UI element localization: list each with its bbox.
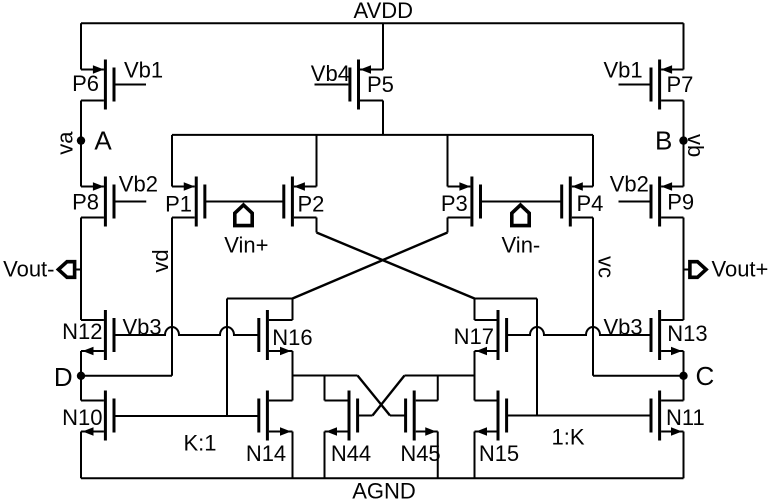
wire N17 drain up xyxy=(474,299,476,321)
wire junction to N44 drain horizontal xyxy=(293,375,358,377)
wire AVDD to P7 source xyxy=(683,23,685,69)
transistor N16 xyxy=(266,310,269,360)
wire P2 drain down xyxy=(316,218,318,233)
svg-text:vc: vc xyxy=(594,256,619,278)
wire P3 drain down xyxy=(447,218,449,233)
wire N17 loop down to 1:K gate line xyxy=(536,299,538,417)
wire N17 source down to N15 drain xyxy=(474,351,476,401)
svg-text:P4: P4 xyxy=(577,191,604,216)
tail rail (sources of P1-P4) xyxy=(172,134,593,136)
wire N44 drain up xyxy=(324,376,326,401)
transistor P3 xyxy=(470,177,473,227)
wire P3 drain cross to N16 drain xyxy=(293,233,448,299)
svg-text:N44: N44 xyxy=(331,441,371,466)
transistor N11 xyxy=(658,391,661,441)
wire AVDD to P5 source xyxy=(382,23,384,69)
gate wire P1-P2 (Vin+) xyxy=(204,201,284,203)
svg-text:AGND: AGND xyxy=(352,479,416,500)
svg-text:P5: P5 xyxy=(367,72,394,97)
gate wire N10-N14 (K:1 mirror) xyxy=(114,415,258,417)
wire N16 loop down to K:1 gate line xyxy=(226,299,228,417)
svg-text:P1: P1 xyxy=(165,192,192,217)
transistor N13 xyxy=(658,310,661,360)
svg-text:P8: P8 xyxy=(72,190,99,215)
svg-text:N11: N11 xyxy=(666,405,705,430)
port Vin+ xyxy=(235,205,252,226)
svg-text:Vb3: Vb3 xyxy=(123,315,162,340)
transistor P2 xyxy=(291,177,294,227)
wire cross N16-source to N45 gate xyxy=(358,376,391,416)
wire P9 drain - Vout+ - N13 drain xyxy=(683,218,685,321)
svg-text:N12: N12 xyxy=(62,319,102,344)
gate wire N15-N11 (1:K mirror) xyxy=(506,415,652,417)
wire N13 source - node C - N11 drain xyxy=(683,351,685,401)
wire N12 source - node D - N10 drain xyxy=(80,351,82,401)
wire N45 drain up xyxy=(437,376,439,401)
svg-text:Vout-: Vout- xyxy=(3,256,54,281)
wire node D to vd xyxy=(81,375,172,377)
svg-text:N14: N14 xyxy=(246,441,286,466)
wire P7 drain - node B - P9 source xyxy=(683,101,685,187)
svg-text:N16: N16 xyxy=(272,325,312,350)
svg-text:vb: vb xyxy=(683,134,708,157)
transistor P9 xyxy=(658,177,661,227)
gate wire Vb3 right (N17-N13) with hops xyxy=(506,327,652,335)
wire P8 drain - Vout- - N12 drain xyxy=(80,218,82,321)
svg-text:K:1: K:1 xyxy=(184,431,217,456)
wire N16 source down to N14 drain xyxy=(292,351,294,401)
wire cross N17-source to N44 gate xyxy=(373,376,405,416)
transistor N45 xyxy=(413,391,416,441)
wire N45 gate lead xyxy=(390,415,406,417)
wire AVDD to P6 source xyxy=(80,23,82,69)
svg-text:Vb2: Vb2 xyxy=(610,172,649,197)
wire P2 drain cross to N17 drain xyxy=(317,233,475,299)
wire tail rail to P1 source xyxy=(171,135,173,187)
wire N16 drain up xyxy=(292,299,294,321)
svg-text:C: C xyxy=(696,361,715,391)
wire P5 drain to tail rail xyxy=(382,101,384,135)
svg-text:N15: N15 xyxy=(479,441,519,466)
svg-text:Vin-: Vin- xyxy=(502,233,541,258)
gate wire P3-P4 (Vin-) xyxy=(480,201,561,203)
transistor P8 xyxy=(104,177,107,227)
svg-text:Vb3: Vb3 xyxy=(604,315,643,340)
svg-text:N17: N17 xyxy=(454,324,494,349)
wire tail rail to P4 source xyxy=(592,135,594,187)
node A junction dot xyxy=(77,136,85,144)
svg-text:P7: P7 xyxy=(667,72,694,97)
wire tail rail to P2 source xyxy=(316,135,318,187)
transistor N44 xyxy=(348,391,351,441)
transistor P6 xyxy=(104,60,107,110)
wire tail rail to P3 source xyxy=(447,135,449,187)
port Vin- xyxy=(512,205,529,226)
transistor N17 xyxy=(497,310,500,360)
svg-text:P9: P9 xyxy=(667,190,694,215)
transistor P5 xyxy=(357,60,360,110)
svg-text:P6: P6 xyxy=(72,71,99,96)
AGND ground rail xyxy=(81,477,684,479)
wire N10 source to AGND xyxy=(80,432,82,479)
transistor N12 xyxy=(104,310,107,360)
wire junction to N45 drain horizontal xyxy=(405,375,475,377)
svg-text:Vb4: Vb4 xyxy=(311,61,350,86)
wire N16 drain loop horizontal xyxy=(227,298,293,300)
wire N11 source to AGND xyxy=(683,432,685,479)
svg-text:Vb1: Vb1 xyxy=(604,58,643,83)
wire N15 source to AGND xyxy=(474,432,476,479)
svg-text:vd: vd xyxy=(148,249,173,272)
svg-text:AVDD: AVDD xyxy=(354,0,414,23)
svg-text:D: D xyxy=(54,362,73,392)
node B junction dot xyxy=(679,136,687,144)
svg-text:P2: P2 xyxy=(298,192,325,217)
svg-text:va: va xyxy=(53,131,78,155)
svg-text:Vb1: Vb1 xyxy=(124,58,163,83)
svg-text:B: B xyxy=(655,125,672,155)
wire N45 source to AGND xyxy=(437,432,439,479)
wire vc to node C xyxy=(593,375,684,377)
svg-text:1:K: 1:K xyxy=(552,425,585,450)
transistor N14 xyxy=(266,391,269,441)
AVDD power rail xyxy=(81,22,684,24)
svg-text:N13: N13 xyxy=(667,321,707,346)
port Vout- xyxy=(58,262,74,278)
wire P6 drain - node A - P8 source xyxy=(80,101,82,187)
wire N17 drain loop horizontal xyxy=(475,298,538,300)
svg-text:N45: N45 xyxy=(400,441,440,466)
svg-text:Vout+: Vout+ xyxy=(712,256,768,281)
node C junction dot xyxy=(679,372,687,380)
wire vc: P4 drain down to node C level xyxy=(592,218,594,376)
transistor N15 xyxy=(497,391,500,441)
svg-text:Vb2: Vb2 xyxy=(119,172,158,197)
transistor P1 xyxy=(195,177,198,227)
svg-text:Vin+: Vin+ xyxy=(224,233,268,258)
wire N44 gate lead xyxy=(357,415,373,417)
port Vout+ xyxy=(690,262,706,278)
node D junction dot xyxy=(77,372,85,380)
wire N44 source to AGND xyxy=(324,432,326,479)
gate wire Vb3 left (N12-N16) with hops xyxy=(114,327,258,335)
transistor P7 xyxy=(658,60,661,110)
svg-text:A: A xyxy=(94,125,112,155)
wire vd: P1 drain down to node D level xyxy=(171,218,173,376)
wire N14 source to AGND xyxy=(292,432,294,479)
transistor N10 xyxy=(104,391,107,441)
svg-text:N10: N10 xyxy=(62,405,102,430)
svg-text:P3: P3 xyxy=(441,191,468,216)
transistor P4 xyxy=(569,177,572,227)
